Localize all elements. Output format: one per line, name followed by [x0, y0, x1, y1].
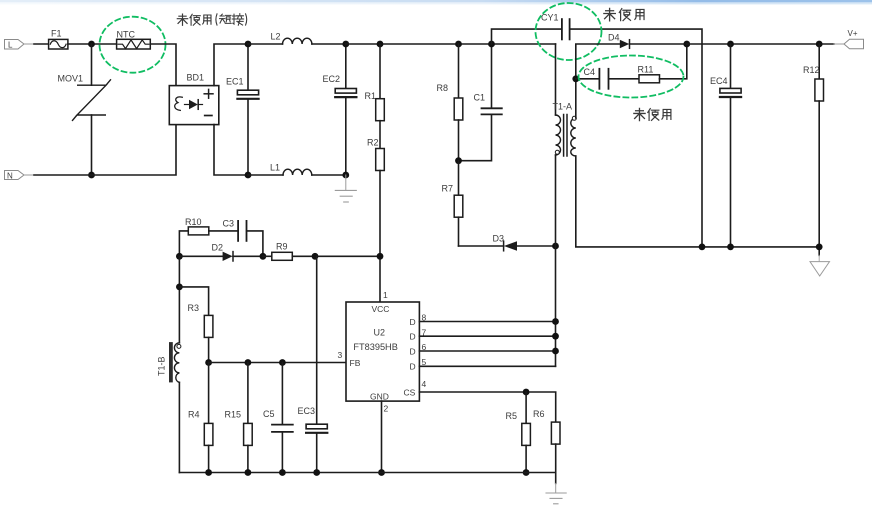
wire D pin 5 — [419, 365, 555, 367]
node C5 top — [279, 359, 286, 366]
node EC1 top — [245, 41, 252, 48]
wire D pin 7 — [419, 335, 555, 337]
ground V- triangle — [810, 255, 830, 276]
wire BD1 minus down to bottom rail — [214, 125, 248, 175]
wire N rail to BD1 bottom — [24, 174, 34, 176]
svg-text:R1: R1 — [365, 91, 377, 101]
svg-text:R8: R8 — [437, 83, 449, 93]
label 未使用 below snubber — [634, 108, 671, 120]
svg-text:D2: D2 — [212, 242, 224, 252]
terminal L — [5, 40, 25, 50]
node R15 bottom — [245, 469, 252, 476]
green highlight ellipse around CY1 — [536, 3, 602, 60]
wire R2 down to VCC node — [379, 171, 381, 303]
resistor R15 — [225, 363, 253, 473]
svg-text:L1: L1 — [270, 163, 280, 173]
svg-text:R4: R4 — [188, 410, 200, 420]
svg-text:N: N — [7, 171, 13, 180]
svg-text:EC2: EC2 — [323, 74, 341, 84]
svg-text:CS: CS — [404, 388, 416, 398]
resistor R4 — [188, 363, 213, 473]
node L-rail / MOV1 junction — [88, 41, 95, 48]
node EC1 bottom — [245, 172, 252, 179]
wire left aux column — [178, 256, 180, 343]
resistor R1 — [365, 44, 385, 121]
node D4 / snubber — [683, 41, 690, 48]
node C4 tap — [572, 75, 579, 82]
svg-text:D: D — [410, 332, 416, 342]
svg-text:C4: C4 — [584, 67, 596, 77]
node bus D6 — [552, 348, 559, 355]
resistor R3 — [179, 287, 213, 363]
resistor R5 — [506, 392, 531, 473]
diode D2 — [179, 242, 263, 261]
fuse F1 — [49, 29, 68, 49]
bridge rectifier BD1 — [169, 73, 219, 125]
node EC3 bottom — [313, 469, 320, 476]
svg-text:2: 2 — [384, 404, 389, 414]
svg-text:T1-B: T1-B — [157, 356, 167, 376]
node CS / R5 — [523, 389, 530, 396]
svg-text:EC3: EC3 — [298, 406, 316, 416]
svg-text:R12: R12 — [803, 65, 820, 75]
svg-text:F1: F1 — [51, 29, 62, 39]
svg-text:R11: R11 — [638, 65, 654, 75]
svg-text:D: D — [410, 317, 416, 327]
svg-text:R2: R2 — [367, 138, 379, 148]
resistor R2 — [367, 121, 384, 171]
node R4 bottom — [205, 469, 212, 476]
resistor R9 — [263, 242, 380, 261]
green highlight ellipse around NTC — [100, 17, 166, 73]
thermistor NTC — [117, 29, 151, 49]
svg-text:R15: R15 — [225, 410, 242, 420]
node D2 anode — [176, 253, 183, 260]
wire drain bus — [555, 246, 557, 366]
wire D pin 8 — [419, 321, 555, 323]
window top edge gradient strip — [0, 0, 872, 2]
node R1 top — [377, 41, 384, 48]
wire bottom ground rail — [179, 472, 555, 474]
node GND on bottom rail — [378, 469, 385, 476]
svg-text:V+: V+ — [848, 29, 858, 38]
node R3 branch — [176, 284, 183, 291]
resistor R8 — [437, 44, 463, 161]
node CY1 bottom on gnd rail — [699, 244, 706, 251]
node R3 bottom / FB line — [205, 359, 212, 366]
transformer T1-B — [157, 342, 181, 472]
node D3 / drain bus — [552, 243, 559, 250]
svg-text:L2: L2 — [271, 32, 281, 42]
resistor R7 — [442, 161, 463, 246]
capacitor C5 — [263, 363, 293, 473]
wire BD1 plus up to DC rail — [214, 44, 248, 86]
svg-text:R3: R3 — [188, 303, 200, 313]
svg-text:L: L — [8, 40, 13, 49]
svg-text:4: 4 — [422, 379, 427, 389]
capacitor EC3 — [298, 406, 328, 473]
node R12 bottom / gnd rail end — [816, 244, 823, 251]
node EC4 top — [727, 41, 734, 48]
svg-text:R9: R9 — [276, 242, 288, 252]
svg-text:D4: D4 — [608, 32, 620, 42]
node bus D8 — [552, 318, 559, 325]
diode D4 — [608, 32, 687, 48]
node C5 bottom — [279, 469, 286, 476]
svg-text:D: D — [410, 362, 416, 372]
svg-text:FT8395HB: FT8395HB — [353, 342, 397, 352]
IC U2 FT8395HB — [338, 290, 427, 414]
wire CS pin — [419, 392, 555, 422]
capacitor EC4 — [710, 44, 741, 247]
node D2 cathode / C3 join — [260, 253, 267, 260]
svg-text:VCC: VCC — [372, 304, 390, 314]
svg-text:C3: C3 — [223, 218, 235, 228]
svg-text:3: 3 — [338, 350, 343, 360]
svg-text:GND: GND — [370, 391, 389, 401]
wire EC3 branch down — [316, 256, 318, 424]
wire FB line — [209, 362, 346, 364]
node R15 top — [245, 359, 252, 366]
svg-text:NTC: NTC — [117, 29, 136, 39]
wire T1-A secondary top — [576, 44, 620, 118]
transformer T1-A — [553, 44, 577, 246]
node EC4 bottom — [727, 244, 734, 251]
node R9 / VCC line — [377, 253, 384, 260]
capacitor C1 — [459, 44, 502, 161]
svg-text:C5: C5 — [263, 409, 275, 419]
capacitor EC1 — [226, 44, 259, 175]
wire output rail — [687, 43, 834, 45]
svg-text:U2: U2 — [374, 328, 386, 338]
diode D3 — [459, 233, 556, 251]
wire GND pin down — [381, 401, 383, 472]
svg-text:BD1: BD1 — [187, 73, 205, 83]
svg-text:FB: FB — [350, 358, 361, 368]
terminal N — [5, 171, 25, 181]
ground earth (bottom) — [546, 483, 566, 503]
terminal V+ — [844, 29, 864, 49]
node R8 bottom / C1 bottom — [455, 157, 462, 164]
node R9 / EC3 branch — [312, 253, 319, 260]
node R5 bottom rail — [523, 469, 530, 476]
node R12 top — [816, 41, 823, 48]
capacitor C3 — [223, 218, 263, 256]
wire T1-A secondary bottom to output gnd rail — [576, 156, 819, 247]
wire NTC to BD1 top — [150, 44, 176, 86]
resistor R11 — [638, 44, 687, 83]
svg-text:R7: R7 — [442, 184, 454, 194]
wire D pin 6 — [419, 350, 555, 352]
node MOV1 / N-rail junction — [88, 172, 95, 179]
resistor R12 — [803, 44, 824, 255]
svg-text:T1-A: T1-A — [553, 101, 573, 111]
svg-text:EC4: EC4 — [710, 76, 728, 86]
svg-text:R10: R10 — [185, 217, 202, 227]
svg-text:MOV1: MOV1 — [58, 74, 84, 84]
capacitor EC2 — [323, 44, 357, 175]
resistor R10 — [179, 217, 238, 256]
wire DC rail EC2 to transformer — [346, 43, 556, 45]
node EC2 top — [342, 41, 349, 48]
node CY1 branch on DC rail — [488, 41, 495, 48]
ground primary (below EC2) — [335, 175, 356, 202]
green highlight ellipse around C4 R11 — [579, 56, 684, 98]
varistor MOV1 — [58, 44, 111, 175]
label 未使用 top right — [604, 8, 644, 20]
svg-text:C1: C1 — [474, 92, 486, 102]
label 未使用(短接) — [177, 14, 246, 26]
node bus D7 — [552, 333, 559, 340]
svg-text:R6: R6 — [533, 409, 545, 419]
resistor R6 — [533, 409, 560, 483]
capacitor CY1 — [492, 12, 703, 247]
svg-text:EC1: EC1 — [226, 76, 244, 86]
inductor L1 — [248, 163, 346, 175]
svg-text:D: D — [410, 347, 416, 357]
capacitor C4 — [576, 67, 639, 89]
node R8 top — [455, 41, 462, 48]
inductor L2 — [248, 32, 346, 44]
svg-text:D3: D3 — [493, 233, 505, 243]
wire L to F1 — [24, 43, 34, 45]
svg-text:1: 1 — [383, 290, 388, 300]
svg-text:R5: R5 — [506, 411, 518, 421]
node EC2 bottom / L1 end — [342, 172, 349, 179]
wire F1 to NTC — [68, 43, 117, 45]
